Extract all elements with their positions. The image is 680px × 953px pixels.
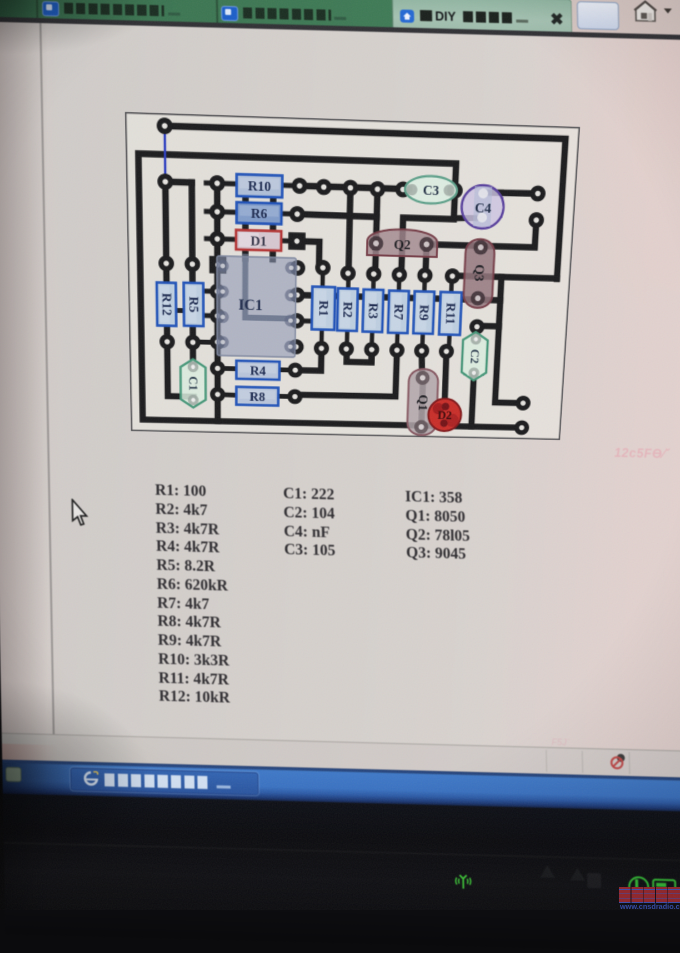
- node R9-bottom (pad): [414, 343, 430, 358]
- wire lead R9 top: [422, 275, 427, 291]
- wire lead R10 to pad B1: [280, 183, 300, 189]
- node K3 (pad): [530, 185, 546, 201]
- node R12-top (pad): [158, 255, 174, 271]
- node A6 (pad): [210, 334, 225, 350]
- node SQ2 (IC1 pin 1) (square pad): [209, 256, 226, 274]
- wire C2 top stub to right bus: [477, 323, 499, 330]
- svg-text:Q1: Q1: [415, 395, 430, 411]
- LED D2: [428, 398, 462, 431]
- capacitor C3: [405, 175, 458, 204]
- wire lead R5 top: [190, 264, 195, 283]
- node P1 (pad): [157, 117, 173, 134]
- wire lead R7 top: [397, 275, 402, 291]
- node R12-bottom (pad): [159, 334, 175, 350]
- svg-text:IC1: IC1: [238, 297, 262, 314]
- svg-text:R12: R12: [159, 293, 174, 316]
- wire lead R7 bottom: [395, 333, 400, 350]
- svg-text:R2: R2: [340, 301, 355, 317]
- transistor Q1 (8050): [407, 369, 439, 436]
- wire lead R12 bottom: [165, 325, 170, 341]
- node IC1-pin7 (pad): [289, 313, 304, 329]
- svg-text:D1: D1: [251, 234, 267, 250]
- svg-text:R9: R9: [416, 304, 431, 320]
- node IC1-pin6 (pad): [289, 287, 305, 303]
- svg-text:R7: R7: [391, 304, 406, 320]
- taskbar: [2, 760, 680, 782]
- node B4 (pad): [370, 181, 386, 197]
- wire lead A1 to R10: [217, 181, 239, 187]
- svg-text:R10: R10: [248, 179, 271, 195]
- svg-text:R11: R11: [442, 302, 458, 324]
- svg-text:D2: D2: [437, 408, 452, 422]
- node A8 (pad): [210, 387, 225, 402]
- wire hidden lead column left: [242, 188, 249, 258]
- transistor Q3 (9045): [463, 239, 495, 308]
- resistor R5: [184, 283, 204, 327]
- resistor R10: [237, 174, 283, 197]
- wire ground ring: C3 right up, across top-left, down left side, along bottom to pad O2: [138, 154, 536, 428]
- wire stub IC pin8: [295, 344, 302, 349]
- faint pink handwriting watermark: [614, 446, 680, 466]
- resistor R6: [237, 202, 282, 224]
- wire lead R9 bottom: [420, 334, 425, 351]
- quick launch icon: [5, 767, 21, 782]
- page background: [0, 22, 680, 753]
- svg-text:Q2: Q2: [394, 237, 411, 253]
- wire net B4 - Q2 base - R3 top: [375, 189, 377, 274]
- node R8-right (pad): [287, 389, 302, 404]
- wire stub left of pad A2: [206, 209, 217, 214]
- pink F5J scribble: [552, 737, 592, 749]
- wire lead R2 bottom: [345, 331, 350, 349]
- node R1-bottom (pad): [314, 341, 329, 356]
- wire lead R12 top: [164, 263, 169, 283]
- node A4 (pad): [210, 283, 225, 299]
- node R3-top (pad): [366, 266, 382, 282]
- wire R12 column: P2 down through R12 to C1 bottom: [165, 182, 193, 397]
- wire lead R1 top: [320, 268, 325, 288]
- wire C4 plus to pad K3: [483, 192, 538, 194]
- wire stub R5 to pad A4: [203, 289, 218, 294]
- wire lead A3 to D1: [217, 236, 239, 242]
- home button: [633, 0, 658, 23]
- resistor R1: [312, 287, 335, 330]
- wire link R5 bottom pad to pad A6: [193, 339, 218, 345]
- capacitor C2: [461, 332, 488, 381]
- wire net behind resistors: IC1 pin to Q3 emitter to bus: [297, 295, 500, 300]
- node R2-bottom (pad): [339, 341, 354, 356]
- svg-text:C2: C2: [468, 349, 482, 364]
- new tab stub: [577, 1, 620, 30]
- node C3-right (pad): [447, 182, 463, 198]
- wire lead R6 to pad R6R: [280, 211, 298, 217]
- component value list: [155, 482, 230, 709]
- svg-text:R5: R5: [186, 296, 201, 312]
- wire left pad-column bus A: [214, 183, 221, 421]
- node SQ1 (D1 cathode) (square pad): [288, 232, 305, 250]
- svg-text:R4: R4: [250, 364, 266, 379]
- svg-text:R8: R8: [249, 390, 265, 405]
- wire net K4 down and left through Q3 top pad to Q2 right pad: [427, 217, 537, 247]
- wire net D1 square pad to R1 top: [297, 241, 324, 268]
- node R6-right (pad): [289, 206, 305, 222]
- node B3 (pad): [342, 180, 358, 197]
- taskbar button: [70, 767, 258, 795]
- wire stub R5 to pad A5: [203, 313, 218, 318]
- node O1 (pad): [515, 396, 531, 411]
- wire Q2 collector down to R9 top: [425, 244, 426, 275]
- node R3-bottom (pad): [364, 342, 379, 357]
- wire right bus drop to pad O1: [495, 277, 530, 403]
- diode D1: [236, 230, 281, 251]
- wire net R9 bottom to Q1 top: [421, 351, 423, 379]
- resistor R9: [413, 291, 434, 334]
- node A5 (pad): [210, 308, 225, 324]
- node C2-top (pad): [469, 319, 485, 335]
- transistor Q2 (78l05): [367, 228, 438, 257]
- drawing frame: [126, 113, 580, 440]
- wire lead R2 top: [346, 273, 351, 289]
- node R11-bottom (pad): [439, 344, 455, 359]
- node R2-top (pad): [340, 265, 356, 281]
- green power indicator: [628, 876, 649, 898]
- tab 1 icon: [42, 1, 59, 16]
- op-amp IC1 (LM358 DIP-8 body): [217, 256, 298, 357]
- capacitor C1: [180, 359, 205, 408]
- node O2 (pad): [514, 420, 530, 435]
- node R7-top (pad): [391, 267, 407, 283]
- wire stub left of pad A3: [206, 236, 217, 241]
- svg-text:R1: R1: [316, 300, 331, 316]
- wire net R11 bottom to D2: [444, 351, 447, 414]
- wire lead R1 bottom: [319, 330, 324, 349]
- tab 2 icon: [221, 6, 238, 21]
- wire under-IC trace D1 anode to IC pin 7: [245, 257, 296, 319]
- node A7 (pad): [210, 361, 225, 376]
- tab 1 title blocks: [64, 3, 164, 17]
- node K4 (pad): [528, 212, 544, 228]
- IE icon on button: [83, 771, 98, 786]
- node A2 (pad): [209, 204, 225, 220]
- tab separators: [36, 0, 39, 21]
- wire lead A7 to R4: [218, 366, 239, 371]
- PCB layout diagram SVG goes here: [125, 112, 580, 440]
- svg-text:Q3: Q3: [471, 264, 486, 281]
- node R5-bottom (pad): [185, 335, 200, 351]
- wire net R6 right to Q2 base column: [297, 214, 377, 217]
- dim bezel icons: [540, 865, 555, 878]
- active tab: [392, 0, 573, 36]
- wire P2 to R5 column link: [165, 178, 191, 185]
- browser tab bar: [0, 0, 588, 35]
- node R5-top (pad): [185, 256, 201, 272]
- svg-text:C4: C4: [474, 201, 492, 217]
- wire lead R5 bottom: [191, 326, 196, 342]
- node B1 (pad): [292, 178, 308, 195]
- dark line under tabs: [0, 17, 680, 41]
- wire hidden lead column right: [269, 189, 276, 259]
- wire stub IC pin6 into R1: [297, 318, 315, 323]
- node R1-top (pad): [315, 260, 331, 276]
- wire net B3 down to R2 top: [349, 188, 351, 273]
- red slash status icon: [610, 753, 628, 771]
- resistor R11: [439, 292, 462, 335]
- node IC1-pin5 (pad): [290, 260, 306, 276]
- resistor R3: [363, 289, 384, 332]
- resistor R4: [236, 361, 279, 380]
- capacitor C4: [461, 185, 505, 229]
- wire lead R3 bottom: [369, 332, 374, 350]
- status bar: [2, 733, 680, 753]
- svg-text:C1: C1: [186, 376, 200, 391]
- svg-text:C3: C3: [423, 183, 440, 199]
- photo watermark overlay: [619, 887, 680, 903]
- left page border: [39, 23, 54, 735]
- wifi indicator: [452, 871, 474, 892]
- wire net R7 bottom to R8 right: [295, 348, 397, 397]
- svg-text:R6: R6: [251, 206, 267, 222]
- wire lead R3 top: [371, 274, 376, 290]
- node C3-left (pad): [395, 181, 411, 197]
- wire C4 minus link to junction: [454, 217, 482, 219]
- wire top power bus from P1 to right side: [165, 126, 566, 279]
- resistor R12: [157, 282, 177, 326]
- node IC1-pin8 (pad): [288, 339, 303, 355]
- wire lead R8 to pad R8R: [277, 394, 295, 399]
- resistor R8: [236, 387, 278, 406]
- wire lead R4 to pad R4R: [278, 367, 295, 372]
- svg-text:R3: R3: [365, 303, 380, 319]
- laptop bezel (black bottom): [3, 794, 680, 953]
- node R11-top (pad): [444, 268, 460, 284]
- wire bus row from R11 top to right bus: [452, 276, 557, 279]
- wire lead R11 bottom: [447, 335, 452, 352]
- wire net R10 right pad row to C3 left: [300, 186, 409, 189]
- wire lead D1 to square pad SQ1: [279, 238, 297, 243]
- wire Q1 body column to ground ring: [421, 381, 423, 425]
- wire net R2 bottom to R3 bottom U-link: [347, 349, 372, 362]
- node B2 (pad): [316, 179, 332, 196]
- mouse cursor: [69, 499, 92, 530]
- wire net C3 right / C4 minus down through Q2 to R7 top: [401, 189, 455, 276]
- wire stub IC pin5: [296, 266, 303, 271]
- wire net R1 bottom to R4 right: [295, 348, 321, 371]
- node R7-bottom (pad): [389, 342, 405, 357]
- wire R5 column: P2 link down through R5 to C1 top: [192, 183, 193, 365]
- green battery indicator: [652, 879, 676, 896]
- node A3 (pad): [210, 231, 226, 247]
- resistor R7: [388, 291, 409, 334]
- wire blue jumper P1 to P2: [163, 122, 166, 182]
- resistor R2: [337, 288, 358, 331]
- node R9-top (pad): [417, 267, 433, 283]
- tab 2 title blocks: [243, 7, 331, 20]
- node A1 (pad): [209, 175, 225, 192]
- wire lead A8 to R8: [218, 392, 239, 398]
- wire lead R11 top: [449, 276, 454, 292]
- node P2 (pad): [157, 173, 173, 190]
- wire stub left of pad A1: [206, 180, 217, 185]
- wire link R12 to R5: [172, 308, 189, 313]
- wire lead A2 to R6: [217, 209, 239, 215]
- wire C2 bottom to ground ring: [471, 376, 473, 427]
- wire D2 to ground ring: [441, 414, 448, 426]
- node R4-right (pad): [288, 362, 303, 377]
